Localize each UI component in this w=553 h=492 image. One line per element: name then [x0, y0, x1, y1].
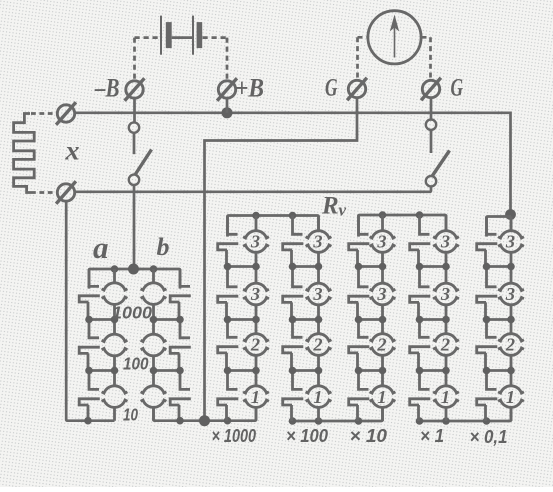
- terminal G left (binding post): [347, 78, 367, 101]
- x10 socket 3: [349, 320, 370, 371]
- svg-text:1: 1: [441, 387, 450, 407]
- terminal X bottom (binding post): [56, 181, 76, 204]
- x1000 socket 1: [218, 216, 239, 267]
- svg-text:x: x: [64, 136, 79, 166]
- x0.1 socket 3: [477, 320, 498, 371]
- junction x100 coil rail bottom: [315, 417, 323, 425]
- x1 coil 2 value 3: [433, 267, 459, 320]
- arm b socket 1: [170, 269, 191, 320]
- decade column x1: [410, 215, 459, 421]
- x1 socket 2: [410, 267, 431, 320]
- dashed lead X bottom: [31, 191, 56, 194]
- x1 socket 4: [410, 371, 431, 422]
- x100 socket 3: [283, 320, 304, 371]
- ratio arm b: [141, 269, 191, 421]
- x1000 coil 3 value 2: [243, 320, 269, 371]
- svg-text:1: 1: [251, 387, 260, 407]
- svg-text:× 100: × 100: [286, 426, 328, 446]
- arm b coil 1: [141, 269, 167, 320]
- arm a coil 3: [102, 371, 128, 421]
- x0.1 coil 2 value 3: [498, 267, 524, 320]
- wire switch SA1 to ratio-box junction: [133, 185, 136, 264]
- svg-text:–B: –B: [94, 74, 119, 103]
- svg-text:3: 3: [312, 284, 322, 304]
- arm b coil 3: [141, 371, 167, 421]
- svg-text:2: 2: [440, 335, 450, 355]
- junction x100 ladder bottom: [289, 417, 297, 425]
- decade column x100: [283, 216, 332, 422]
- x10 rung at y=370.5: [359, 369, 383, 372]
- wire G right terminal down: [430, 98, 433, 119]
- x1000 socket 3: [218, 320, 239, 371]
- x1000 socket 4: [218, 371, 239, 421]
- wire x0.1 coil rail top stem: [510, 217, 513, 231]
- arm b rung y=370.5: [154, 369, 181, 372]
- x10 socket 2: [349, 267, 370, 320]
- x10 coil 2 value 3: [370, 267, 396, 320]
- top rail: x10 to x1 columns: [359, 215, 447, 237]
- x1 rung at y=266.5: [420, 265, 447, 268]
- x0.1 rung at y=370.5: [487, 369, 512, 372]
- dashed lead galvanometer right: [422, 37, 431, 79]
- arm b rung y=319.5: [154, 318, 181, 321]
- junction arm a ladder bottom: [84, 417, 92, 425]
- decade column x1000: [218, 216, 269, 421]
- x1000 rung at y=319.5: [228, 318, 257, 321]
- decade column x0.1: [477, 217, 524, 422]
- junction a plug rail top: [111, 265, 119, 273]
- junction x0.1 ladder bottom: [483, 417, 491, 425]
- x1 coil 3 value 2: [433, 320, 459, 371]
- svg-text:R: R: [321, 193, 339, 220]
- battery B (two cells): [161, 16, 202, 55]
- x1 coil 4 value 1: [433, 371, 459, 422]
- switch SA1 (battery switch): [129, 122, 152, 185]
- svg-text:G: G: [325, 75, 338, 102]
- svg-text:1: 1: [506, 387, 515, 407]
- x100 rung at y=319.5: [293, 318, 319, 321]
- junction x1000 coil rail top: [252, 212, 260, 220]
- svg-text:2: 2: [250, 335, 260, 355]
- x1 rung at y=370.5: [420, 369, 447, 372]
- decade column x10: [349, 215, 396, 421]
- svg-text:10: 10: [123, 405, 138, 425]
- svg-text:3: 3: [250, 284, 260, 304]
- terminal G right (binding post): [421, 78, 441, 101]
- x0.1 rung at y=319.5: [487, 318, 512, 321]
- x10 rung at y=266.5: [359, 265, 383, 268]
- bottom bus wire (to X bottom): [75, 190, 432, 193]
- x10 socket 4: [349, 371, 370, 422]
- label Rv: [321, 193, 347, 220]
- svg-text:3: 3: [505, 232, 515, 252]
- x0.1 coil 4 value 1: [498, 371, 524, 422]
- svg-text:× 1000: × 1000: [212, 426, 257, 446]
- junction feed (switch to a/b): [128, 264, 139, 275]
- top rail: x1000 to x100 columns: [228, 216, 319, 237]
- junction at right-edge drop to Rv chain: [505, 209, 516, 220]
- x100 coil 1 value 3: [306, 216, 332, 267]
- bottom rail: arm b to x1000 column (node with G wire): [154, 408, 257, 421]
- svg-text:× 0,1: × 0,1: [470, 427, 508, 447]
- svg-text:1: 1: [313, 387, 322, 407]
- x1 coil 1 value 3: [433, 215, 459, 267]
- left outer rail wire (X bottom to ratio box): [66, 201, 114, 420]
- x0.1 coil 3 value 2: [498, 320, 524, 371]
- junction x1 coil rail bottom: [442, 417, 450, 425]
- wire switch SA2 to bottom bus: [430, 186, 431, 191]
- resistor X (unknown, meander): [14, 114, 35, 193]
- x1 socket 3: [410, 320, 431, 371]
- dashed lead galvanometer left: [358, 37, 368, 79]
- x1000 coil 4 value 1: [243, 371, 269, 421]
- x100 rung at y=266.5: [293, 265, 319, 268]
- terminal -B (binding post): [125, 78, 145, 101]
- x0.1 socket 2: [477, 267, 498, 320]
- junction x100 ladder top: [289, 212, 297, 220]
- arm a socket 1: [79, 269, 100, 320]
- arm a coil 2: [102, 320, 128, 371]
- switch SA2 (galvanometer switch): [426, 120, 450, 187]
- bottom rail: x100 to x10 columns: [293, 408, 383, 421]
- junction x10 ladder bottom: [355, 417, 363, 425]
- junction b plug rail top: [150, 265, 158, 273]
- dashed lead X top: [31, 112, 56, 115]
- x10 coil 1 value 3: [370, 215, 396, 267]
- svg-text:3: 3: [376, 284, 386, 304]
- terminal X top (binding post): [56, 102, 76, 125]
- terminal +B (binding post): [217, 78, 237, 101]
- x10 socket 1: [349, 215, 370, 267]
- svg-text:b: b: [157, 234, 170, 261]
- arm a socket 2: [79, 320, 100, 371]
- x100 socket 2: [283, 267, 304, 320]
- svg-text:G: G: [451, 75, 464, 102]
- x100 rung at y=370.5: [293, 369, 319, 372]
- svg-text:2: 2: [312, 335, 322, 355]
- top rail: x0.1 column to right-edge drop: [487, 217, 512, 237]
- svg-text:3: 3: [440, 232, 450, 252]
- x1000 socket 2: [218, 267, 239, 320]
- x100 socket 4: [283, 371, 304, 422]
- x0.1 socket 1: [477, 217, 498, 267]
- svg-text:v: v: [339, 201, 347, 220]
- junction x1 ladder top: [416, 211, 424, 219]
- junction x1000 ladder bottom: [224, 417, 232, 425]
- x100 coil 4 value 1: [306, 371, 332, 422]
- x1000 rung at y=266.5: [228, 265, 257, 268]
- top bus wire (battery row): [75, 113, 511, 213]
- x1000 rung at y=370.5: [228, 369, 257, 372]
- svg-text:× 1: × 1: [420, 426, 444, 446]
- junction +B on top bus: [222, 107, 233, 118]
- arm a coil 1: [102, 269, 128, 320]
- x100 coil 2 value 3: [306, 267, 332, 320]
- junction x10 coil rail top: [379, 211, 387, 219]
- arm a rung y=370.5: [89, 369, 115, 372]
- ratio arm top rail (a-b): [89, 269, 180, 289]
- wire G left to Rv chain start: [205, 98, 358, 416]
- x1000 coil 1 value 3: [243, 216, 269, 267]
- wire -B terminal to switch SA1: [133, 98, 136, 122]
- svg-text:+B: +B: [235, 74, 264, 103]
- arm b socket 2: [170, 320, 191, 371]
- x1000 coil 2 value 3: [243, 267, 269, 320]
- x0.1 rung at y=266.5: [487, 265, 512, 268]
- x100 socket 1: [283, 216, 304, 267]
- svg-text:a: a: [93, 230, 109, 265]
- svg-text:100: 100: [123, 354, 149, 374]
- x10 coil 4 value 1: [370, 371, 396, 422]
- junction x1 ladder bottom: [416, 417, 424, 425]
- bottom rail: x1 to x0.1 columns: [420, 408, 512, 421]
- svg-text:1000: 1000: [112, 303, 152, 323]
- dashed lead battery plus: [203, 38, 228, 79]
- arm a rung y=319.5: [89, 318, 115, 321]
- dashed lead battery minus: [135, 38, 160, 79]
- arm a socket 3: [79, 371, 100, 421]
- x0.1 socket 4: [477, 371, 498, 422]
- galvanometer (meter with needle): [368, 11, 421, 64]
- x10 coil 3 value 2: [370, 320, 396, 371]
- svg-text:3: 3: [440, 284, 450, 304]
- svg-text:2: 2: [505, 335, 515, 355]
- svg-text:3: 3: [505, 284, 515, 304]
- wire +B terminal to top bus: [226, 98, 229, 113]
- svg-text:3: 3: [312, 232, 322, 252]
- arm b socket 3: [170, 371, 191, 421]
- x10 rung at y=319.5: [359, 318, 383, 321]
- x100 coil 3 value 2: [306, 320, 332, 371]
- ratio arm a: [79, 269, 127, 421]
- arm b coil 2: [141, 320, 167, 371]
- svg-text:3: 3: [376, 232, 386, 252]
- x1 rung at y=319.5: [420, 318, 447, 321]
- svg-text:2: 2: [376, 335, 386, 355]
- svg-text:3: 3: [250, 232, 260, 252]
- junction b ladder bottom: [176, 417, 184, 425]
- svg-text:1: 1: [377, 387, 386, 407]
- x1 socket 1: [410, 215, 431, 267]
- svg-text:× 10: × 10: [350, 426, 388, 446]
- junction G wire node (big): [199, 415, 210, 426]
- x0.1 coil 1 value 3: [498, 217, 524, 267]
